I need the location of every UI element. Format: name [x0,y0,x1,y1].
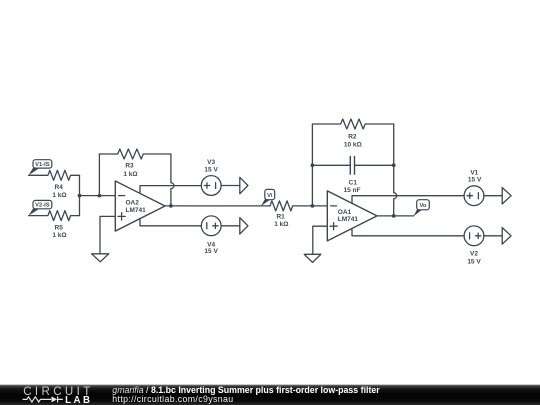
svg-text:LM741: LM741 [338,216,359,223]
wire OA2 non-inverting input to ground [100,216,115,253]
svg-text:LM741: LM741 [126,207,147,214]
svg-text:1 kΩ: 1 kΩ [52,232,66,239]
ground at OA2 input [92,254,109,262]
svg-text:V3: V3 [207,159,215,166]
svg-text:10 kΩ: 10 kΩ [344,141,362,148]
footer bar [0,385,540,405]
op-amp OA1 [327,191,377,241]
ground at V1 [502,188,511,205]
svg-text:15 V: 15 V [467,258,481,265]
svg-text:OA1: OA1 [338,209,352,216]
label R2 value [344,133,362,148]
junction C1 right [392,163,396,167]
junction R3 tap [98,194,102,198]
resistor R4 [29,170,80,180]
label OA2 LM741 [126,200,147,214]
label V4 value [204,241,218,255]
junction OA2 output node [169,204,173,208]
wire feedback right riser with hop [394,124,397,216]
ground at V3 [240,177,248,194]
junction summing node [78,194,82,198]
label R5 value [52,225,66,240]
voltage source V1 [464,186,484,206]
wire V2 to ground [484,235,502,237]
voltage source V4 [201,216,221,236]
label OA1 LM741 [338,209,359,223]
label V1 value [468,170,482,184]
wire OA2 V- pin to V4 [140,219,201,226]
svg-text:Vi: Vi [267,193,273,199]
op-amp OA2 [115,181,165,231]
label R4 value [52,184,66,199]
wire OA2 output to R1 [165,205,270,207]
flag V2-IS [28,200,51,215]
wire summing node to OA2 inverting input [80,195,116,197]
flag Vi [261,189,275,206]
voltage source V3 [201,176,221,196]
svg-text:1 kΩ: 1 kΩ [52,192,66,199]
wire OA1 V- pin to V2 [352,229,464,236]
svg-text:OA2: OA2 [126,200,140,207]
flag V1-IS [28,160,51,176]
wire V4 to ground [221,225,240,227]
label R3 value [123,163,137,178]
svg-text:V1-IS: V1-IS [35,162,50,168]
label C1 value [344,179,361,194]
svg-text:C1: C1 [349,179,358,186]
wire V3 to ground [221,185,240,187]
junction OA1 output node [392,214,396,218]
svg-text:R1: R1 [276,214,285,221]
resistor R2 [312,119,393,129]
resistor R3 [99,149,170,159]
wire feedback left riser [311,124,313,206]
junction C1 left [311,163,315,167]
wire V1 to ground [484,195,502,197]
voltage source V2 [464,226,484,246]
svg-text:R2: R2 [348,133,357,140]
resistor R1 [270,201,312,211]
svg-text:15 V: 15 V [204,248,218,255]
wire OA1 non-inverting input to ground [313,226,328,254]
wire OA1 V+ pin to V1 [352,196,464,204]
resistor R5 [29,211,80,221]
label V2 value [467,251,481,266]
capacitor C1 [312,156,393,174]
svg-text:R3: R3 [125,163,134,170]
svg-text:Vo: Vo [420,203,427,209]
wire to OA1 inverting input [312,205,327,207]
wire R3 right riser with hop [171,154,174,206]
svg-text:V2: V2 [470,251,478,258]
ground at V4 [240,218,248,235]
svg-text:15 nF: 15 nF [344,187,361,194]
svg-text:V1: V1 [470,170,478,177]
svg-text:1 kΩ: 1 kΩ [123,171,137,178]
wire OA1 output [377,215,414,217]
svg-text:15 V: 15 V [204,166,218,173]
label V3 value [204,159,218,173]
svg-text:http://circuitlab.com/c9ysnau: http://circuitlab.com/c9ysnau [112,394,233,404]
svg-text:R4: R4 [55,184,64,191]
svg-text:R5: R5 [55,225,64,232]
wire R3 left riser [98,154,100,196]
wire R4 to R5 vertical [79,175,81,215]
svg-text:LAB: LAB [65,395,92,405]
junction OA1 inverting node [311,204,315,208]
svg-text:V2-IS: V2-IS [35,203,50,209]
label R1 value [274,214,288,229]
CircuitLab logo [23,386,94,405]
svg-text:1 kΩ: 1 kΩ [274,221,288,228]
ground at V2 [502,228,511,245]
ground at OA1 input [304,254,321,262]
svg-text:15 V: 15 V [468,177,482,184]
flag Vo [414,200,430,217]
wire OA2 V+ pin to V3 [140,186,201,194]
